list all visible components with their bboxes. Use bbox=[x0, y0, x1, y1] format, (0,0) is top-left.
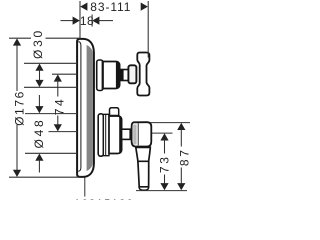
escutcheon plate Ø176 outer silhouette bbox=[77, 39, 94, 177]
top valve sleeve flange bbox=[97, 60, 103, 91]
lower valve rib line bbox=[105, 115, 107, 156]
svg-text:83-111: 83-111 bbox=[90, 0, 131, 14]
top valve body bbox=[103, 62, 120, 89]
bottom extension line y190.5 bbox=[136, 190, 187, 192]
dim 83-111 right arrow bbox=[141, 3, 148, 11]
plate bottom drop line bbox=[84, 178, 86, 197]
dim Ø30 bottom line y87.3 bbox=[24, 86, 78, 88]
extension line left x80 bbox=[79, 1, 81, 40]
lower valve body right cap bbox=[119, 116, 122, 153]
top valve cap face line bbox=[116, 62, 121, 89]
svg-text:73: 73 bbox=[158, 155, 172, 174]
lever handle hub bbox=[132, 122, 152, 146]
dim Ø48 outside arrows + tails bbox=[38, 95, 40, 108]
dim 87 top extension line y122.5 bbox=[150, 122, 190, 124]
dim 87 arrows + line bbox=[177, 123, 185, 130]
dim 18 right arrow with tail bbox=[92, 17, 99, 25]
extension line x92 bbox=[91, 15, 93, 27]
dim 73 arrows + line bbox=[160, 133, 168, 140]
lower valve sleeve flange bbox=[98, 114, 103, 156]
dim 83-111 left arrow bbox=[80, 3, 87, 11]
dim 73 top extension line y133 bbox=[152, 132, 173, 134]
svg-text:74: 74 bbox=[52, 97, 66, 116]
svg-text:Ø176: Ø176 bbox=[12, 90, 26, 126]
lever grip (porcelain) bbox=[138, 161, 149, 187]
dim Ø176 vertical line + arrows bbox=[16, 45, 18, 92]
dim 74 arrows + line bbox=[54, 74, 62, 81]
top valve stem neck bbox=[120, 70, 129, 81]
svg-text:87: 87 bbox=[177, 148, 191, 167]
dim Ø176 top extension line y38 bbox=[9, 37, 31, 39]
dim Ø48 bottom line y153.2 bbox=[25, 152, 78, 154]
lower valve top nub bbox=[110, 108, 119, 116]
dim 74 bottom line y131.5 bbox=[49, 131, 78, 133]
dim Ø48 top line y113.5 bbox=[25, 113, 78, 115]
svg-text:Ø48: Ø48 bbox=[32, 117, 46, 148]
lever grip ferrule cap bbox=[139, 187, 148, 190]
lever arm bbox=[136, 147, 151, 161]
svg-text:Ø30: Ø30 bbox=[31, 28, 45, 59]
dim 18 left arrow with tail bbox=[61, 20, 75, 22]
plate rim shaded band bbox=[87, 45, 93, 171]
cross-handle bar (side view, club ends) bbox=[137, 53, 149, 96]
lever hub contour line bbox=[137, 123, 139, 145]
lower valve rib ring bbox=[103, 114, 109, 155]
cross-handle hub bbox=[128, 65, 136, 83]
lever hub shading bbox=[133, 125, 136, 145]
dim Ø176 bottom extension line y177 bbox=[9, 176, 84, 178]
lower valve stem neck bbox=[122, 129, 131, 139]
plate inner lip contour line bbox=[78, 42, 81, 172]
dim Ø30 arrows bbox=[35, 64, 43, 71]
svg-text:16815180: 16815180 bbox=[74, 198, 134, 200]
lower valve body bbox=[109, 116, 122, 154]
extension line right x148 bbox=[147, 1, 149, 58]
top valve flange inner edge line bbox=[101, 61, 103, 90]
dim 74 top line y74 bbox=[52, 73, 78, 75]
dim Ø30 top line y63.3 bbox=[24, 62, 78, 64]
